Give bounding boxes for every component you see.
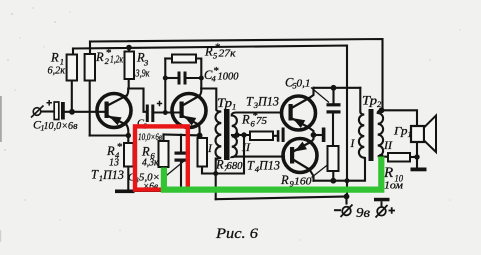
wire R5 right lead and T2 collector column <box>196 59 201 89</box>
label R1 <box>48 51 66 77</box>
svg-text:П13: П13 <box>258 159 280 173</box>
svg-text:R: R <box>141 145 150 159</box>
svg-text:3: 3 <box>143 58 148 68</box>
wire C2 right to T2 base <box>154 111 179 113</box>
wire R9 bottom lead <box>332 171 334 181</box>
label R4 <box>106 141 123 169</box>
label C3 <box>128 172 160 193</box>
svg-text:3,9к: 3,9к <box>135 68 150 80</box>
transistor T3 <box>282 96 316 130</box>
label R5 <box>204 42 236 61</box>
wire emitter bus T1 <box>90 134 129 136</box>
leader line C5 <box>311 88 329 103</box>
wire R4 top lead <box>127 136 129 144</box>
label R6* <box>241 110 268 129</box>
svg-text:680: 680 <box>227 160 243 172</box>
svg-text:Т: Т <box>91 168 99 182</box>
label R6 <box>141 145 159 169</box>
svg-text:13: 13 <box>109 157 119 169</box>
wire Tp1 primary bottom down <box>215 159 217 200</box>
wire R2 bottom lead crossing to emitter bus <box>89 81 91 136</box>
plus terminal with bar <box>374 198 395 218</box>
resistor R3 <box>125 52 135 80</box>
wire R4 bottom lead <box>127 167 129 191</box>
svg-text:0,1: 0,1 <box>297 78 311 90</box>
wire T3 collector up right <box>310 88 314 98</box>
transistor T1 <box>97 94 131 128</box>
wire R7 bottom to tap column <box>202 135 244 174</box>
svg-text:Гр: Гр <box>393 124 408 138</box>
label R10 <box>383 165 403 192</box>
speaker Gr1 <box>411 116 436 153</box>
svg-text:1000: 1000 <box>218 71 239 83</box>
wire speaker bottom to ground <box>416 142 418 168</box>
wire T3 emitter down <box>309 127 314 135</box>
label II Tp2 <box>383 140 393 152</box>
wire R6* right lead <box>273 135 277 137</box>
svg-text:9в: 9в <box>356 206 370 221</box>
svg-text:Тр: Тр <box>217 96 232 110</box>
label C4 <box>204 65 239 84</box>
svg-text:1: 1 <box>408 129 412 139</box>
capacitor C3 <box>175 152 188 162</box>
plus sign C2 <box>157 101 162 106</box>
label R3 <box>135 51 150 80</box>
wire T1 collector up <box>127 89 128 96</box>
label Gr1 <box>393 124 412 140</box>
label R9 <box>280 173 312 189</box>
svg-text:10,0×6в: 10,0×6в <box>44 120 78 132</box>
transformer Tp2 <box>359 109 383 161</box>
wire rail A top <box>90 39 383 108</box>
wire input to C1 <box>41 110 54 112</box>
svg-text:II: II <box>383 140 393 152</box>
input terminal <box>31 106 44 118</box>
label 9v <box>356 206 370 221</box>
capacitor C4 <box>178 72 187 85</box>
wire T4 collector to Tp2 primary bottom <box>314 158 366 181</box>
red highlight box <box>135 126 188 189</box>
wire R1 top lead <box>72 49 74 55</box>
wire Tp1 sec bottom to T4 base <box>238 156 284 158</box>
wire Tp2 primary top lead <box>359 88 361 112</box>
label Tp1 <box>217 96 236 112</box>
wire T2 collector up <box>200 89 202 96</box>
scan edge mark left <box>0 96 2 242</box>
svg-text:R: R <box>50 51 59 65</box>
svg-text:П13: П13 <box>102 168 124 182</box>
resistor R5 <box>172 55 196 63</box>
Tp2 primary winding I <box>359 112 365 161</box>
Tp1 secondary winding II <box>232 113 238 158</box>
label Tp2 <box>362 94 382 110</box>
wire T2 emitter down <box>198 125 201 136</box>
transformer Tp1 <box>216 109 239 161</box>
leader line C3 <box>164 161 184 178</box>
wire T4 collector down <box>310 170 314 181</box>
resistor R6* 75 <box>250 132 273 141</box>
svg-text:Т: Т <box>247 159 255 173</box>
label R2 <box>95 47 124 66</box>
capacitor C6 plates <box>277 128 285 143</box>
leader line R9 <box>312 165 329 178</box>
wire R3 bottom to C2 branch <box>129 79 146 112</box>
wire ground bus in red box <box>127 190 182 192</box>
wire R10 left lead <box>381 155 388 157</box>
svg-text:27к: 27к <box>219 48 237 60</box>
wire emitter node to cap plate <box>314 134 322 136</box>
svg-text:Т: Т <box>246 95 254 109</box>
transistor T4 mirrored <box>283 139 317 173</box>
svg-text:R: R <box>95 50 104 64</box>
label T3 <box>246 95 279 111</box>
wire R6 top lead <box>162 135 164 142</box>
svg-text:4,3к: 4,3к <box>142 158 159 169</box>
transistor T2 <box>172 94 206 128</box>
Tp2 core <box>369 109 374 161</box>
svg-text:Рис. 6: Рис. 6 <box>215 226 259 242</box>
label I Tp2 <box>350 138 356 150</box>
svg-text:*: * <box>117 141 123 153</box>
label C1 <box>33 118 78 133</box>
plus sign C1 <box>47 100 53 106</box>
resistor R1 <box>67 55 77 81</box>
capacitor C5 <box>327 103 341 113</box>
resistor R2 <box>85 54 95 81</box>
wire C1 to T1 base <box>65 111 105 113</box>
wire R6 bottom lead <box>163 167 165 191</box>
ground bar speaker <box>411 168 427 172</box>
label II Tp1 <box>241 142 251 154</box>
resistor R4 <box>124 143 134 167</box>
label T4 <box>247 159 280 175</box>
wire Tp1 primary top from T2 collector <box>201 89 216 110</box>
wire R5 left lead <box>165 57 172 59</box>
svg-text:6,2к: 6,2к <box>48 65 66 77</box>
svg-text:1ом: 1ом <box>384 180 403 192</box>
label R7 <box>215 158 243 174</box>
wire C3 bottom lead <box>180 162 182 192</box>
wire R10 right lead <box>410 156 417 158</box>
wire Tp1 sec top to T3 base <box>236 111 282 113</box>
label C5 <box>285 76 311 91</box>
svg-text:R: R <box>204 45 213 59</box>
wire C5 R9 column <box>332 114 334 147</box>
Tp2 secondary winding II <box>378 110 383 156</box>
svg-text:II: II <box>241 142 251 154</box>
wire minus terminal stem <box>345 197 347 204</box>
svg-text:75: 75 <box>256 115 268 127</box>
svg-text:R: R <box>241 113 250 127</box>
wire Tp2 sec top to speaker <box>382 110 418 126</box>
wire T1 emitter down <box>127 125 129 136</box>
svg-text:160: 160 <box>294 176 312 188</box>
capacitor C7 plate near emitters <box>322 128 326 143</box>
wire R3 top lead <box>128 48 130 52</box>
svg-text:1,2к: 1,2к <box>110 54 124 66</box>
svg-text:Тр: Тр <box>362 94 377 108</box>
minus terminal <box>334 205 353 218</box>
wire R5C4 left vertical <box>164 59 166 113</box>
wire C3 top lead <box>180 135 182 152</box>
wire T3 collector to Tp2 <box>314 87 361 89</box>
label C2 <box>137 119 162 144</box>
wire C4 right lead <box>187 77 202 79</box>
wire T2 emitter bus left <box>164 133 200 136</box>
wire R1 bottom lead <box>71 81 73 112</box>
resistor R9 <box>328 146 339 171</box>
Tp1 core <box>224 109 230 160</box>
Tp1 primary winding I <box>216 110 222 161</box>
wire R2 top lead <box>89 42 91 55</box>
capacitor C2 <box>146 105 155 123</box>
wire R7 top lead <box>200 135 202 138</box>
ground bar R4 <box>115 190 135 194</box>
label I Tp1 <box>207 143 213 155</box>
label T1 <box>91 168 124 184</box>
wire bottom supply to minus junction <box>216 197 347 200</box>
wire rail B second <box>73 46 347 195</box>
resistor R10 <box>388 153 410 162</box>
wire C4 left lead <box>165 77 177 79</box>
svg-text:1: 1 <box>232 102 236 112</box>
svg-text:П13: П13 <box>257 95 279 109</box>
wire T4 emitter up <box>312 135 314 142</box>
green highlight path <box>164 157 381 190</box>
wire C5 top lead <box>332 88 334 103</box>
resistor R7 <box>198 138 208 167</box>
caption <box>215 226 259 242</box>
resistor R6 in box <box>159 141 169 167</box>
capacitor C1 electrolytic <box>54 102 65 120</box>
svg-text:R: R <box>280 173 289 187</box>
wire Tp1 center tap to R6* <box>232 134 250 136</box>
